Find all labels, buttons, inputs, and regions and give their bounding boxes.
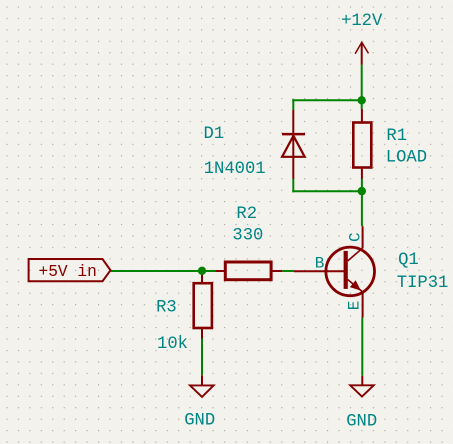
svg-text:Q1: Q1 xyxy=(398,251,419,270)
svg-text:+12V: +12V xyxy=(341,12,383,31)
svg-text:LOAD: LOAD xyxy=(386,148,427,167)
svg-text:TIP31: TIP31 xyxy=(397,274,449,293)
svg-text:R2: R2 xyxy=(236,205,257,224)
svg-text:E: E xyxy=(346,301,364,311)
svg-text:C: C xyxy=(346,232,364,242)
svg-text:R1: R1 xyxy=(386,127,407,146)
svg-text:D1: D1 xyxy=(204,125,225,144)
svg-text:+5V in: +5V in xyxy=(39,263,97,281)
svg-text:GND: GND xyxy=(184,411,215,430)
svg-text:B: B xyxy=(315,255,325,273)
svg-text:GND: GND xyxy=(346,412,377,431)
svg-text:R3: R3 xyxy=(156,299,177,318)
svg-text:330: 330 xyxy=(232,226,263,245)
svg-text:1N4001: 1N4001 xyxy=(204,160,266,179)
svg-text:10k: 10k xyxy=(157,335,188,354)
